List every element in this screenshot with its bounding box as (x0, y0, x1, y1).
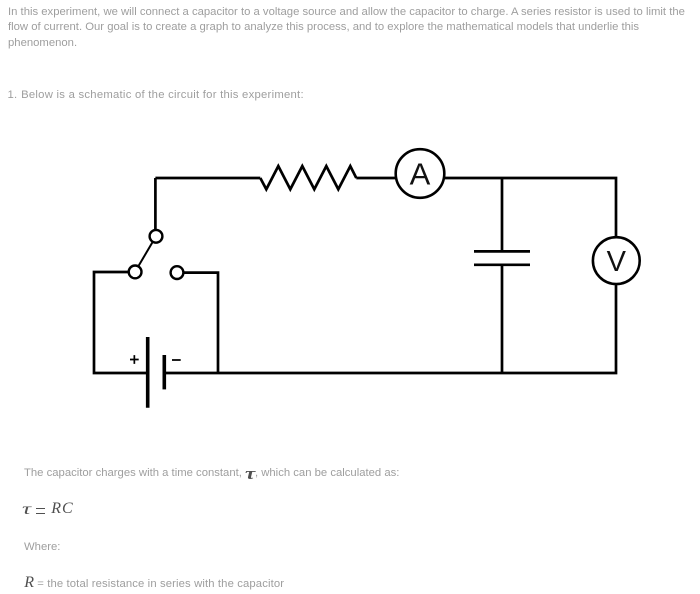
svg-text:A: A (410, 157, 431, 192)
svg-text:V: V (607, 246, 627, 278)
